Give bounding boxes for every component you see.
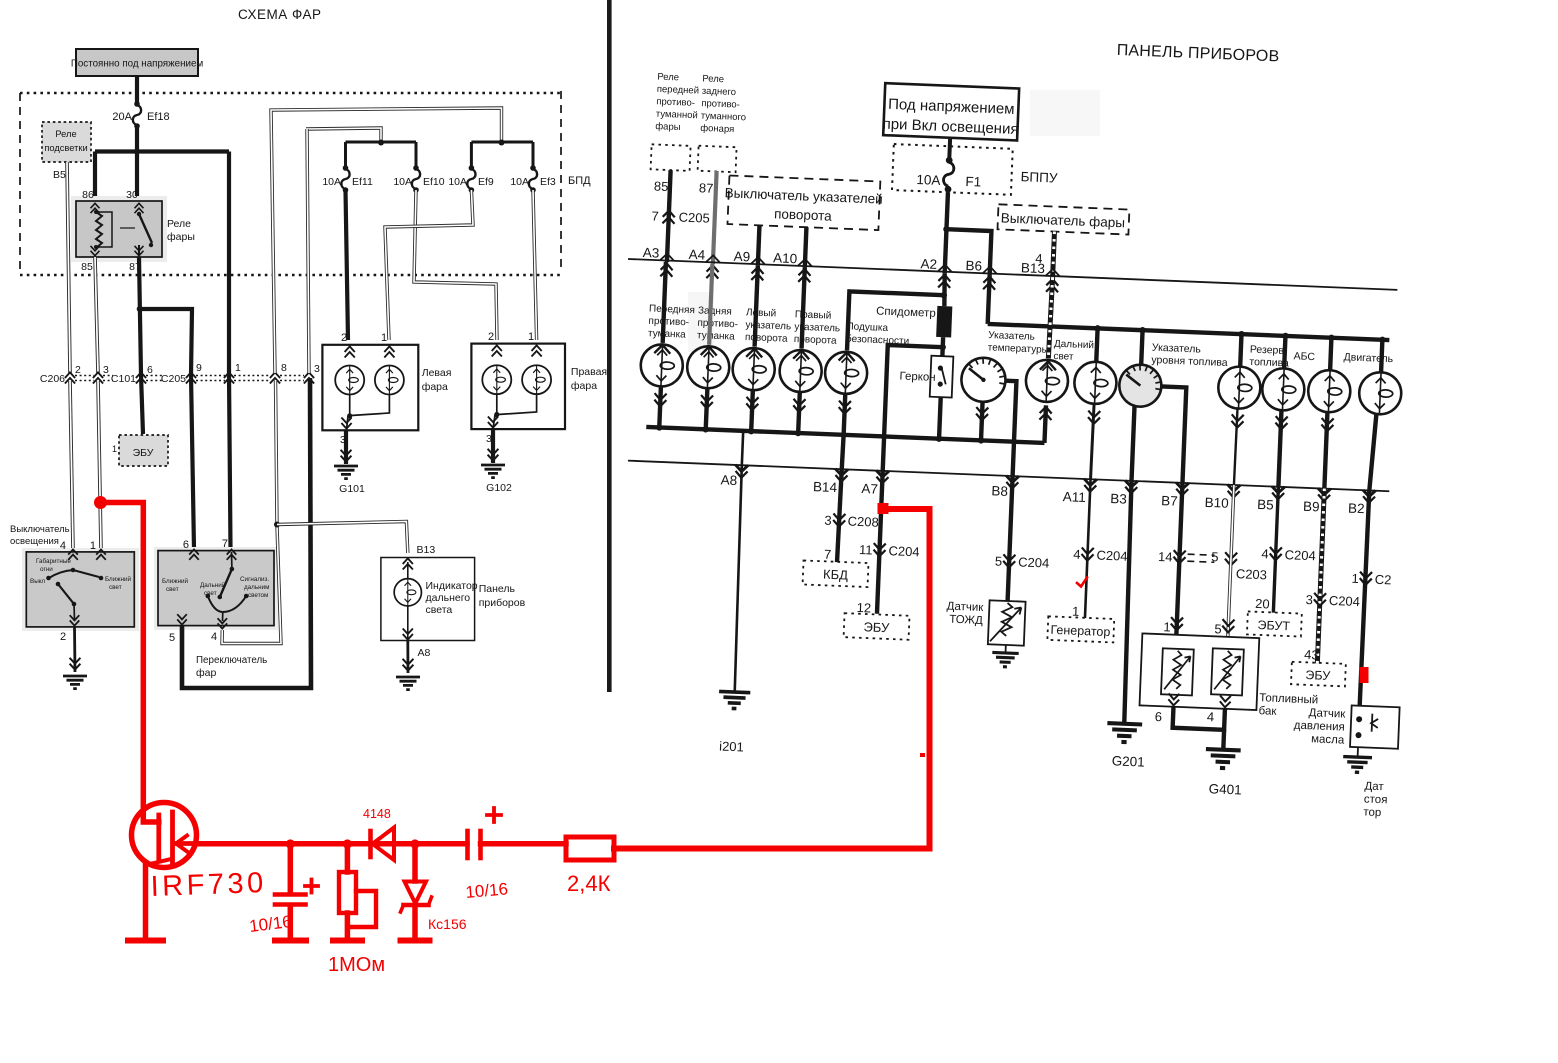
svg-text:бак: бак [1258, 705, 1277, 718]
svg-text:туманка: туманка [648, 328, 687, 341]
node branch 87 [137, 306, 143, 312]
connector C205-7 [662, 210, 675, 223]
ground G101 [341, 450, 352, 462]
scan noise washes [1030, 90, 1100, 136]
svg-text:10A: 10A [448, 176, 467, 188]
svg-text:Выкл: Выкл [30, 578, 46, 585]
connector row C206 C101 C205 dotted lines [75, 376, 304, 381]
wire cap to resistor [481, 841, 567, 847]
svg-text:Передняя: Передняя [649, 303, 695, 316]
svg-text:G102: G102 [486, 482, 512, 494]
svg-text:G401: G401 [1208, 781, 1242, 797]
right headlight Правая фара [471, 331, 565, 429]
svg-text:B6: B6 [965, 258, 982, 274]
fuse Ef10 10A [393, 165, 444, 193]
node F1/B6 junction [943, 226, 950, 233]
svg-text:стоя: стоя [1364, 793, 1388, 806]
diode D1 4148 [371, 828, 395, 861]
svg-text:фонаря: фонаря [700, 123, 734, 135]
svg-text:Топливный: Топливный [1259, 692, 1318, 706]
wire B10 column below bus [1228, 485, 1234, 637]
lower bus line [628, 461, 1389, 492]
svg-text:B7: B7 [1161, 493, 1178, 509]
lamp high beam left [375, 366, 404, 395]
svg-text:подсветки: подсветки [44, 143, 87, 153]
wire Ef9 to left headlight pin1 double [385, 190, 473, 340]
svg-text:B8: B8 [991, 483, 1008, 499]
svg-text:Ближний: Ближний [162, 577, 188, 585]
wire B9 column below bus (hatched) [1317, 489, 1324, 664]
Генератор dotted box [1047, 616, 1114, 642]
svg-text:1МОм: 1МОм [328, 954, 385, 976]
wire supply to fuse [135, 76, 139, 104]
wire junction up to C205-8 [276, 380, 278, 526]
fuse Ef9 10A [448, 165, 494, 193]
svg-text:1: 1 [528, 331, 534, 343]
wire pin4 double to junction [222, 526, 281, 644]
fuse Ef11 10A [322, 165, 373, 193]
Реле передней противотуманной фары label + dotted box [651, 71, 700, 171]
svg-text:5: 5 [995, 553, 1003, 568]
svg-text:B5: B5 [1257, 497, 1274, 513]
ground G401 [1205, 749, 1241, 769]
wire temp gauge to B8 column [1002, 381, 1017, 476]
svg-text:A8: A8 [720, 472, 737, 488]
svg-text:противо-: противо- [697, 318, 738, 331]
lamp Подушка безопасности [839, 352, 855, 361]
svg-text:Указатель: Указатель [988, 330, 1035, 343]
svg-text:Ef10: Ef10 [423, 176, 445, 188]
wire fuel gauge to B7 column [1157, 386, 1186, 482]
svg-text:Дальний: Дальний [1054, 339, 1094, 352]
resistor R2 2.4K [566, 837, 614, 860]
svg-text:2: 2 [60, 631, 66, 643]
wires lamps to common line [659, 386, 845, 434]
wire A10 column above bus [805, 227, 807, 267]
zener VD1 KC156 [401, 844, 432, 941]
svg-text:C204: C204 [1329, 593, 1361, 609]
wire A8 to ground [406, 641, 409, 673]
svg-text:B13: B13 [1021, 260, 1046, 276]
svg-text:фара: фара [571, 380, 597, 392]
wire reed to common line [939, 397, 941, 439]
svg-text:10A: 10A [916, 172, 941, 188]
svg-text:туманного: туманного [701, 110, 747, 123]
wire junction to indicator B13 double [277, 522, 408, 554]
svg-text:поворота: поворота [745, 332, 789, 345]
svg-text:Правый: Правый [795, 309, 832, 321]
node j1 [286, 839, 295, 848]
wire supply to C205-1 / pin7 [229, 152, 231, 549]
svg-text:87: 87 [699, 180, 714, 196]
wire fuse pair 2 top [471, 141, 533, 144]
wire Ef10 to right headlight pin2 double [414, 190, 497, 340]
svg-text:85: 85 [81, 261, 93, 273]
svg-text:поворота: поворота [774, 206, 833, 223]
svg-text:B10: B10 [1204, 495, 1229, 511]
svg-text:ЭБУ: ЭБУ [133, 447, 154, 459]
wire B8 column below bus [1008, 476, 1013, 601]
svg-text:КБД: КБД [823, 567, 849, 583]
sensor Датчик ТОЖД [988, 600, 1026, 645]
wire supply rail horizontal [95, 149, 229, 153]
svg-text:1: 1 [1163, 619, 1171, 634]
svg-text:фара: фара [422, 381, 448, 393]
wire temp gauge bottom to common [981, 402, 983, 441]
svg-text:Сигнализ.: Сигнализ. [240, 576, 269, 583]
svg-text:Ef18: Ef18 [147, 111, 170, 123]
svg-text:5: 5 [1214, 621, 1222, 636]
connector C204-5 [1003, 554, 1016, 567]
svg-text:Спидометр: Спидометр [876, 305, 936, 319]
wire common to A8 [742, 431, 743, 465]
wire speedometer branch to A7 column [883, 345, 943, 473]
svg-text:7: 7 [824, 547, 832, 562]
svg-text:фар: фар [196, 667, 216, 679]
svg-text:противо-: противо- [701, 98, 740, 111]
svg-text:86: 86 [82, 189, 94, 201]
svg-text:1: 1 [90, 540, 96, 552]
node: Постоянно под напряжением supply box [71, 49, 204, 76]
wire feed double to Ef11/Ef10 pair [306, 128, 381, 142]
svg-text:СХЕМА ФАР: СХЕМА ФАР [238, 7, 321, 22]
svg-text:масла: масла [1311, 733, 1345, 746]
svg-text:C205: C205 [678, 209, 710, 225]
resistor R1 1MOm [333, 844, 376, 941]
svg-text:B13: B13 [417, 544, 436, 556]
svg-text:10A: 10A [393, 176, 412, 188]
wire A4 column above bus (grey) [713, 171, 717, 264]
svg-text:C2: C2 [1374, 572, 1391, 588]
connector C204-3 [1314, 593, 1327, 606]
wire B13 to high beam lamp (hatched) [1048, 277, 1052, 358]
svg-text:туманной: туманной [656, 109, 698, 122]
wire fuel gauge bottom to B3 [1132, 406, 1135, 481]
svg-text:10A: 10A [510, 176, 529, 188]
svg-text:давления: давления [1294, 720, 1346, 734]
wire A10 to lamp4 [802, 268, 805, 349]
Выключатель фары dashed box [997, 204, 1129, 234]
svg-text:Реле: Реле [55, 129, 76, 139]
wire B6 to lamp feed line [988, 275, 990, 324]
wire A3 to lamp1 [663, 262, 666, 343]
connector C204-4b [1269, 547, 1282, 560]
svg-text:фары: фары [655, 121, 681, 133]
svg-text:20: 20 [1255, 596, 1270, 612]
svg-text:B9: B9 [1303, 499, 1320, 515]
svg-text:Реле: Реле [702, 73, 724, 85]
svg-text:Реле: Реле [167, 218, 191, 230]
wire switch pin2 to ground [73, 627, 76, 672]
svg-text:Ef3: Ef3 [540, 176, 556, 188]
red mark near C204 A11 [1077, 578, 1087, 587]
svg-text:1: 1 [381, 332, 387, 344]
fuel tank Топливный бак [1140, 633, 1260, 710]
lamp bottom chevrons left group [654, 393, 667, 406]
svg-text:тор: тор [1363, 806, 1381, 819]
svg-text:i201: i201 [719, 739, 744, 755]
svg-text:G101: G101 [339, 483, 365, 495]
tank pins 6 and 4 [1168, 693, 1179, 705]
svg-text:1: 1 [1351, 571, 1359, 586]
svg-text:20A: 20A [112, 111, 132, 123]
wire R2 to instrument panel A7 [614, 509, 930, 849]
svg-text:БПД: БПД [568, 175, 591, 187]
svg-text:Дальний: Дальний [200, 581, 226, 589]
svg-text:свет: свет [166, 586, 179, 593]
svg-text:света: света [426, 604, 453, 616]
ЭБУ dotted box right [1291, 662, 1346, 687]
wire pin5 U to C205-3 [182, 378, 311, 688]
svg-text:светом: светом [248, 592, 268, 599]
svg-text:A9: A9 [733, 249, 750, 265]
svg-text:фары: фары [167, 231, 195, 243]
wire A3 column above bus [667, 170, 671, 262]
svg-text:приборов: приборов [479, 597, 526, 609]
svg-text:Кс156: Кс156 [428, 916, 467, 932]
wire junction to B6 [945, 229, 992, 275]
svg-text:9: 9 [196, 362, 202, 374]
wire common to B14 [842, 435, 844, 469]
connector C204-1 right edge [1360, 572, 1373, 585]
svg-text:Ближний: Ближний [105, 575, 131, 583]
svg-text:4: 4 [1261, 546, 1269, 561]
ground G201 [1107, 723, 1143, 743]
svg-text:A2: A2 [920, 256, 937, 272]
svg-text:30: 30 [126, 189, 138, 201]
wire A2 below bus through speedometer [943, 273, 945, 306]
svg-text:Ef9: Ef9 [478, 176, 494, 188]
svg-text:B3: B3 [1110, 491, 1127, 507]
wire to G102 [491, 429, 495, 463]
svg-text:4: 4 [60, 540, 66, 552]
svg-text:Реле: Реле [657, 72, 679, 84]
svg-text:Задняя: Задняя [698, 305, 732, 317]
wire airbag lamp feed from A2 [847, 291, 944, 354]
svg-text:Подушка: Подушка [846, 321, 888, 334]
lamp high beam right [522, 365, 551, 394]
red mark on B2 wire [1360, 667, 1369, 683]
svg-text:3: 3 [103, 364, 109, 376]
wire B7 column below bus [1176, 483, 1182, 635]
svg-text:Ef11: Ef11 [352, 176, 373, 188]
svg-text:A3: A3 [642, 245, 659, 261]
svg-text:B14: B14 [813, 479, 838, 495]
node: Под напряжением при Вкл освещения box [882, 83, 1020, 140]
wire A9 column above bus [758, 225, 760, 265]
node junction pin4/C205-8/B13 [274, 522, 280, 528]
svg-text:A8: A8 [418, 647, 431, 659]
svg-text:4: 4 [211, 631, 217, 643]
wire A11 column below bus [1085, 479, 1091, 618]
wire A4 to lamp2 [709, 264, 712, 345]
wire Ef11 to left headlight pin2 [346, 190, 349, 340]
ground source bar [128, 938, 163, 944]
svg-text:43: 43 [1304, 647, 1319, 663]
svg-text:C206: C206 [40, 373, 65, 385]
wire Q1 source to ground [143, 864, 149, 939]
svg-text:10/16: 10/16 [465, 879, 509, 902]
wire box to fuse F1 [947, 138, 952, 159]
lamp labels row [648, 303, 910, 349]
wire to G101 [344, 430, 348, 464]
svg-text:85: 85 [654, 178, 669, 194]
wire A8 below bus to ground i201 [733, 465, 744, 692]
wire B14 column below bus [837, 469, 842, 562]
fuse Ef18 20A [112, 101, 169, 129]
svg-text:IRF730: IRF730 [150, 867, 267, 903]
svg-text:6: 6 [1155, 709, 1163, 724]
upper bus line [628, 259, 1397, 290]
svg-text:A11: A11 [1062, 489, 1086, 505]
connector C203-14/5 [1173, 550, 1186, 563]
lamp unnamed (beam) [1074, 361, 1118, 405]
svg-text:2,4К: 2,4К [567, 871, 611, 896]
ЭБУТ dotted box [1247, 611, 1302, 636]
feed line right lamps [988, 324, 1390, 340]
svg-text:2: 2 [75, 364, 81, 376]
svg-text:передней: передней [657, 84, 700, 97]
svg-text:4: 4 [1073, 547, 1081, 562]
lamp low beam left [335, 366, 364, 395]
svg-text:1: 1 [235, 362, 241, 374]
lamp right edge partial [1358, 371, 1402, 415]
svg-text:Постоянно под напряжением: Постоянно под напряжением [71, 59, 204, 70]
wire relay87 thick down to C101 and ЭБУ [139, 257, 143, 434]
wire B5 column below bus [1273, 487, 1278, 613]
svg-text:A10: A10 [773, 250, 798, 266]
svg-text:заднего: заднего [702, 86, 737, 98]
wire tank to G401 [1173, 707, 1225, 730]
svg-text:A4: A4 [688, 247, 706, 263]
wire C205-3 double up segment [307, 129, 309, 373]
svg-text:5: 5 [1211, 549, 1219, 564]
svg-text:C204: C204 [888, 543, 920, 559]
svg-text:3: 3 [824, 513, 832, 528]
common return line [646, 427, 1044, 443]
svg-text:4: 4 [1207, 709, 1215, 724]
oil pressure switch Датчик давления масла [1350, 705, 1400, 748]
svg-text:противо-: противо- [648, 316, 689, 329]
svg-text:2: 2 [341, 332, 347, 344]
svg-text:свет: свет [109, 584, 122, 591]
svg-text:5: 5 [169, 632, 175, 644]
svg-text:Датчик: Датчик [1308, 707, 1346, 720]
wire B5 double line [67, 162, 70, 373]
page divider bar [607, 0, 612, 692]
transistor Q1 IRF730 [132, 803, 198, 868]
svg-text:C204: C204 [1096, 548, 1128, 564]
fuel sender 1 [1161, 648, 1194, 695]
capacitor C2 series 10/16 [468, 808, 502, 858]
svg-text:6: 6 [183, 539, 189, 551]
svg-text:11: 11 [859, 542, 873, 558]
svg-text:C205: C205 [161, 373, 186, 385]
wire drain line [197, 841, 467, 847]
lamp Правый указатель поворота [793, 350, 809, 359]
relay switch blade [137, 212, 141, 216]
svg-text:Индикатор: Индикатор [426, 580, 478, 592]
node j3 [410, 839, 419, 848]
svg-text:Геркон: Геркон [899, 370, 936, 383]
connector bumps upper bus [660, 253, 1060, 276]
wire B3 column below bus to G201 [1122, 481, 1134, 724]
wire B2 column below bus [1360, 490, 1370, 705]
svg-text:3: 3 [1305, 592, 1313, 607]
lamp high beam indicator [394, 579, 421, 606]
wire sensor to ground [1005, 645, 1007, 653]
svg-text:освещения: освещения [10, 536, 59, 547]
svg-text:6: 6 [147, 364, 153, 376]
ЭБУ dotted box center [844, 613, 910, 640]
svg-text:БППУ: БППУ [1020, 169, 1058, 185]
left headlight Левая фара [322, 332, 418, 430]
reed switch Геркон [930, 356, 954, 398]
svg-text:Левый: Левый [746, 307, 777, 319]
svg-text:Панель: Панель [479, 583, 516, 595]
lamp Левый указатель поворота [746, 348, 762, 357]
БПД dotted enclosure [20, 91, 561, 275]
svg-text:C204: C204 [1284, 547, 1316, 563]
svg-text:8: 8 [281, 362, 287, 374]
wire F1 down to node A2 junction [945, 192, 948, 273]
lamp Передняя противотуманка [654, 345, 670, 354]
svg-text:огни: огни [40, 566, 53, 573]
fuse F1 10A [892, 144, 1013, 195]
svg-text:Габаритные: Габаритные [36, 557, 71, 565]
ЭБУ dotted box left [112, 435, 168, 466]
red speck near red vertical [920, 753, 925, 757]
svg-text:противо-: противо- [656, 96, 695, 109]
svg-text:ЭБУТ: ЭБУТ [1257, 618, 1290, 633]
svg-text:C208: C208 [847, 514, 879, 530]
Выключатель указателей поворота dashed box [723, 175, 883, 230]
svg-text:дальнего: дальнего [426, 592, 471, 604]
svg-text:F1: F1 [965, 174, 981, 190]
relay Реле фары [71, 189, 167, 273]
svg-text:7: 7 [651, 208, 659, 223]
fuel sender 2 [1211, 648, 1244, 695]
ground G102 [488, 449, 499, 461]
wire Ef3 to right headlight pin1 double [533, 190, 537, 340]
ground light switch [70, 658, 81, 670]
node j2 [343, 839, 352, 848]
svg-text:B5: B5 [53, 169, 66, 181]
node red tap on switch wire [94, 496, 107, 509]
common line right end up to high beam lamp [1044, 405, 1046, 443]
svg-text:B2: B2 [1348, 501, 1365, 517]
svg-text:Двигатель: Двигатель [1343, 351, 1394, 365]
КБД dotted box [803, 560, 869, 587]
relay coil [96, 212, 102, 248]
wire speedometer to reed [940, 337, 945, 356]
Реле подсветки dotted box [42, 122, 91, 162]
wire oil switch to ground [1357, 747, 1359, 757]
wire lamp to A11 [1088, 411, 1101, 424]
indicator panel box [381, 558, 475, 641]
node red tap at A7/C208 [878, 503, 889, 514]
svg-text:Датчик: Датчик [946, 601, 984, 614]
svg-text:C101: C101 [111, 373, 136, 385]
node supply junction [134, 149, 140, 155]
connector C204-4 [1081, 547, 1094, 560]
wire fuse to relay pin30 [135, 126, 139, 201]
lamp Задняя противотуманка [701, 346, 717, 355]
svg-text:туманка: туманка [697, 330, 736, 343]
svg-text:3: 3 [314, 363, 320, 375]
connector C204-11 [873, 543, 886, 556]
svg-text:ЭБУ: ЭБУ [1305, 668, 1330, 683]
